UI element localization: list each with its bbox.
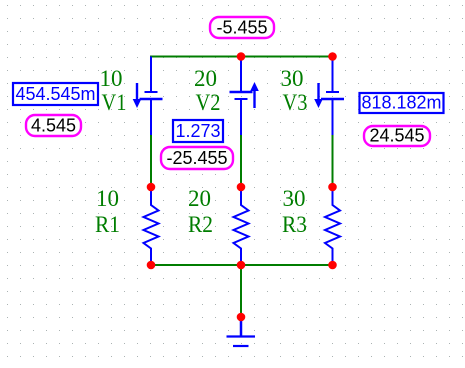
svg-text:30: 30	[281, 66, 304, 91]
svg-text:30: 30	[283, 186, 306, 211]
wire V2 bottom to R2 top	[240, 135, 242, 187]
wire bottom node to ground	[240, 265, 242, 317]
designator V3	[283, 90, 308, 115]
node V3 top junction	[328, 52, 337, 61]
node R2 top junction	[237, 183, 246, 192]
designator R1	[95, 212, 120, 237]
designator V2	[196, 90, 221, 115]
wire top horizontal net	[150, 56, 334, 58]
voltage source V2	[230, 57, 259, 136]
wire bottom horizontal net	[150, 264, 334, 266]
resistor R3	[325, 187, 340, 265]
value label R2 20	[188, 186, 211, 211]
svg-text:10: 10	[96, 186, 119, 211]
svg-text:V2: V2	[196, 90, 221, 115]
measurement label 1.273	[173, 120, 223, 142]
designator R2	[188, 212, 213, 237]
svg-text:-5.455: -5.455	[216, 18, 267, 38]
resistor R2	[234, 187, 249, 265]
resistor R1	[144, 187, 159, 265]
node R2 bottom junction	[237, 261, 246, 270]
node R3 top junction	[328, 183, 337, 192]
wire V1 bottom to R1 top	[150, 135, 152, 187]
wire V3 bottom to R3 top	[332, 135, 334, 187]
measurement label 454.545m	[13, 83, 98, 105]
measurement label -25.455	[161, 147, 233, 169]
value label R3 30	[283, 186, 306, 211]
svg-text:20: 20	[188, 186, 211, 211]
node ground junction	[237, 313, 246, 322]
ground	[227, 317, 256, 346]
value label V1 10	[100, 66, 123, 91]
value label R1 10	[96, 186, 119, 211]
node R1 bottom junction	[147, 261, 156, 270]
measurement label 4.545	[26, 115, 81, 136]
svg-text:818.182m: 818.182m	[361, 93, 441, 113]
measurement label -5.455	[210, 17, 274, 38]
svg-text:1.273: 1.273	[175, 121, 220, 141]
svg-text:4.545: 4.545	[31, 116, 76, 136]
svg-text:454.545m: 454.545m	[15, 84, 95, 104]
node V2 top junction	[237, 52, 246, 61]
svg-text:V1: V1	[102, 90, 127, 115]
node R1 top junction	[147, 183, 156, 192]
designator V1	[102, 90, 127, 115]
voltage source V1	[133, 57, 163, 136]
svg-text:20: 20	[194, 66, 217, 91]
node R3 bottom junction	[328, 261, 337, 270]
value label V2 20	[194, 66, 217, 91]
designator R3	[282, 212, 307, 237]
svg-text:24.545: 24.545	[369, 126, 424, 146]
value label V3 30	[281, 66, 304, 91]
measurement label 818.182m	[360, 93, 444, 114]
svg-text:R3: R3	[282, 212, 307, 237]
svg-text:V3: V3	[283, 90, 308, 115]
svg-text:R2: R2	[188, 212, 213, 237]
voltage source V3	[314, 57, 344, 136]
svg-text:10: 10	[100, 66, 123, 91]
svg-text:R1: R1	[95, 212, 120, 237]
svg-text:-25.455: -25.455	[166, 148, 227, 168]
measurement label 24.545	[364, 126, 430, 147]
